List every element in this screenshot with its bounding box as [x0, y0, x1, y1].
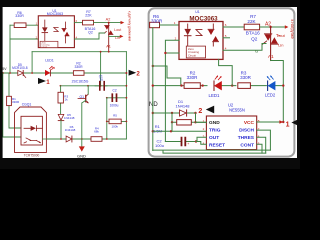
- wire from LED row up to U1 bottom: [219, 59, 233, 85]
- wire D1 row: [153, 112, 196, 114]
- svg-text:1N4148: 1N4148: [64, 116, 75, 120]
- junction dots on +5V rail: [2, 72, 4, 74]
- thyristor D5 MCR100-8: [18, 70, 23, 75]
- resistor R3 panel: [238, 83, 251, 89]
- node A2: [108, 22, 110, 24]
- svg-text:68k: 68k: [94, 129, 99, 133]
- wire R6 row: [10, 24, 38, 26]
- wire U1 pin6 to R7: [74, 22, 82, 24]
- svg-text:к датчику движения: к датчику движения: [127, 11, 131, 41]
- wire +5V to sensor lower: [3, 73, 21, 137]
- svg-text:C2: C2: [113, 88, 117, 92]
- diode D5 1N4148 vertical: [58, 114, 64, 120]
- bottom loop wire 2: [163, 151, 266, 153]
- LED inside sensor: [31, 126, 36, 131]
- wire Lin branch: [109, 35, 120, 37]
- svg-text:A2: A2: [106, 18, 111, 22]
- resistor parallel with D1: [172, 113, 196, 122]
- resistor R5: [107, 120, 127, 122]
- bottom loop wire 1: [153, 149, 271, 151]
- svg-text:MOC3063: MOC3063: [47, 12, 63, 16]
- svg-text:Q2: Q2: [88, 30, 93, 34]
- wire OUT pin: [197, 137, 206, 141]
- terminal arrow net 1: [279, 120, 283, 123]
- svg-text:OUT: OUT: [209, 135, 219, 141]
- svg-text:THRES: THRES: [238, 135, 255, 141]
- wire VCC row to net 1: [257, 121, 284, 123]
- svg-text:R5: R5: [113, 114, 117, 118]
- svg-text:1000u: 1000u: [110, 103, 119, 107]
- svg-text:LED2: LED2: [265, 93, 276, 98]
- wire LED row: [153, 85, 283, 87]
- panel frame: [149, 8, 295, 156]
- svg-text:2: 2: [136, 71, 140, 78]
- wire Q1 collector up: [87, 86, 89, 94]
- resistor R7: [83, 20, 94, 25]
- svg-text:330R: 330R: [187, 75, 199, 80]
- svg-text:330R: 330R: [74, 65, 83, 69]
- svg-text:330R: 330R: [240, 75, 252, 80]
- gate wire of Q2: [74, 33, 104, 39]
- wire U1 pin5 stub: [223, 37, 230, 39]
- svg-text:1u: 1u: [99, 78, 103, 82]
- wire drop x101 from top row: [100, 52, 102, 86]
- svg-text:A1: A1: [106, 45, 111, 49]
- wire R6 to U1: [160, 24, 180, 26]
- LED1 panel: [214, 81, 222, 90]
- resistor R3 vertical: [60, 86, 62, 115]
- resistor R2 panel: [184, 83, 200, 89]
- svg-text:LED1: LED1: [45, 59, 54, 63]
- zero-cross symbol inside U1: [54, 28, 58, 32]
- svg-text:330R: 330R: [151, 19, 163, 24]
- LED inside U1 panel: [187, 24, 189, 28]
- resistor R7 panel: [244, 24, 259, 30]
- wire U1 pin6 to R7 panel: [223, 26, 244, 28]
- svg-text:+: +: [187, 142, 189, 146]
- net port 2: [129, 70, 137, 76]
- triac Q2 BTA16 panel: [270, 27, 272, 61]
- zero crossing circuit inner box panel: [186, 46, 205, 58]
- wire row B: [107, 97, 127, 99]
- net port 1 black arrow at edge: [291, 119, 299, 127]
- net port 1: [38, 78, 46, 84]
- wire x107 down: [106, 98, 108, 139]
- svg-text:GND: GND: [77, 153, 86, 158]
- wire bottom row: [46, 138, 126, 140]
- op-amp U1 MOC3063 box: [38, 16, 74, 48]
- capacitor C2 1000u: [112, 94, 116, 101]
- terminal arrow Lout: [121, 21, 125, 24]
- svg-text:22K: 22K: [247, 19, 256, 24]
- svg-text:Lout: Lout: [114, 28, 121, 32]
- ground symbol: [81, 139, 83, 146]
- wire stub to U1 pin2: [10, 38, 38, 40]
- svg-text:2: 2: [198, 108, 202, 115]
- phototransistor inside sensor: [24, 138, 41, 143]
- timer U2 NE555N box: [206, 116, 256, 150]
- resistor R6 (panel): [150, 22, 160, 27]
- +5V rail wire: [3, 72, 127, 74]
- wire row below U1: [32, 51, 126, 53]
- diode D1 1N4148: [180, 110, 187, 116]
- resistor R1 vertical: [9, 73, 21, 128]
- svg-text:VCC: VCC: [244, 120, 255, 126]
- svg-text:NE555N: NE555N: [229, 108, 245, 113]
- terminal arrow Lout panel: [285, 25, 289, 29]
- wire A1 loop to LED2 and VCC: [271, 61, 284, 123]
- white page background: [0, 0, 300, 169]
- svg-text:1: 1: [286, 121, 290, 128]
- wire left rail panel: [152, 28, 154, 151]
- wire R7 to A2 node panel: [260, 26, 285, 28]
- wire U1 pin3 stub: [165, 52, 179, 54]
- wire THRES down: [257, 137, 266, 153]
- svg-text:100u: 100u: [155, 143, 164, 148]
- zero-cross symbol inside U1 panel: [196, 30, 202, 36]
- junction A1 on row: [108, 51, 110, 53]
- svg-text:RESET: RESET: [209, 143, 225, 149]
- svg-text:Lout: Lout: [277, 33, 286, 38]
- svg-text:U1: U1: [195, 10, 200, 14]
- svg-text:BTA16: BTA16: [246, 31, 260, 36]
- svg-text:ND: ND: [149, 102, 158, 108]
- svg-text:330R: 330R: [12, 100, 20, 104]
- svg-text:GND: GND: [209, 120, 220, 126]
- LED inside U1: [44, 20, 46, 27]
- svg-text:к нагрузке: к нагрузке: [290, 20, 295, 40]
- wire GND pin: [196, 121, 207, 123]
- wire step from rail to R2 row: [153, 66, 181, 86]
- svg-text:1N4148: 1N4148: [175, 103, 190, 108]
- label Lout: [277, 34, 280, 35]
- wire left rail top: [9, 25, 11, 73]
- svg-text:CONT: CONT: [240, 143, 254, 149]
- triac inside U1 panel: [208, 30, 214, 35]
- wire DISCH down: [257, 130, 271, 150]
- svg-text:330R: 330R: [15, 14, 24, 18]
- triac Q2 BTA16: [108, 23, 110, 52]
- terminal arrow Lin: [120, 35, 124, 38]
- svg-text:DISCH: DISCH: [239, 128, 254, 134]
- svg-text:TCRT5000: TCRT5000: [24, 154, 40, 158]
- svg-text:LED1: LED1: [209, 93, 221, 98]
- svg-text:1: 1: [46, 79, 50, 86]
- svg-text:TRIG: TRIG: [209, 128, 221, 134]
- wire right rail: [125, 52, 127, 139]
- svg-text:Lin: Lin: [278, 43, 283, 48]
- svg-text:1k: 1k: [65, 98, 69, 102]
- svg-text:G: G: [255, 48, 258, 53]
- LED1: [45, 70, 50, 76]
- svg-text:2SC1815G: 2SC1815G: [72, 80, 89, 84]
- wire CONT down: [257, 144, 262, 153]
- LED2 blue: [268, 81, 276, 90]
- gate wire of Q2 panel: [223, 44, 266, 51]
- svg-text:Lin: Lin: [115, 36, 120, 40]
- wire drop from row to +5V rail: [31, 52, 33, 73]
- svg-text:1N4148: 1N4148: [65, 128, 76, 132]
- capacitor C1: [95, 85, 107, 87]
- svg-text:MOC3063: MOC3063: [189, 15, 218, 22]
- svg-text:CGQ1: CGQ1: [22, 102, 32, 106]
- svg-text:Circuit: Circuit: [188, 53, 196, 57]
- svg-text:Q2: Q2: [251, 37, 258, 42]
- resistor R2: [73, 71, 84, 76]
- svg-text:MCR100-8: MCR100-8: [12, 66, 28, 70]
- svg-text:100k: 100k: [111, 125, 118, 129]
- resistor R6: [14, 23, 26, 28]
- wire R7 to A2 node: [94, 22, 121, 24]
- wire U1 pin2 down left: [165, 40, 179, 141]
- wire C2 to RESET pin: [196, 142, 206, 145]
- resistor R4: [91, 137, 102, 142]
- zero crossing circuit inner box: [40, 41, 58, 47]
- triac inside U1: [62, 29, 66, 33]
- svg-text:Circuit: Circuit: [42, 46, 48, 49]
- svg-text:A1: A1: [268, 54, 274, 60]
- wire Q1 emitter down: [82, 100, 86, 139]
- svg-text:22K: 22K: [85, 13, 92, 17]
- wire row A: [60, 85, 126, 87]
- diode D6 1N4148: [66, 136, 72, 142]
- wire TRIG row: [153, 130, 207, 132]
- op-amp U1 MOC3063 box (panel): [179, 22, 223, 60]
